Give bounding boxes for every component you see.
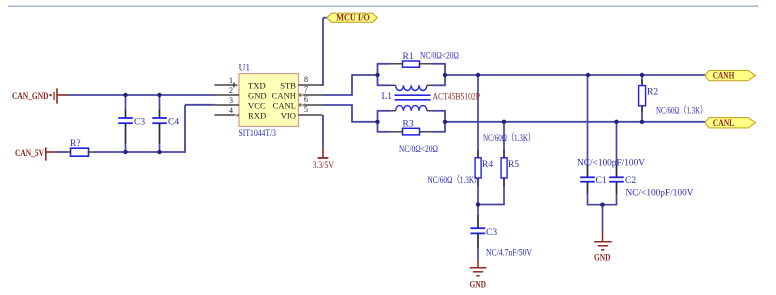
resistor R4: [475, 158, 481, 178]
net tag CANH: [705, 70, 756, 80]
junction R5 branch on CANL rail: [502, 120, 506, 124]
svg-text:VIO: VIO: [281, 110, 296, 120]
wire C3 upper lead: [125, 95, 127, 118]
junction node R4-R5-C3 midpoint: [476, 202, 480, 206]
port CAN_GND: [50, 94, 52, 96]
svg-text:C1: C1: [596, 176, 607, 186]
capacitor C4 (left): [152, 117, 167, 119]
wire C4 lower lead: [159, 123, 161, 152]
port CAN_5V: [45, 147, 47, 160]
svg-text:NC/60Ω（1.3K）: NC/60Ω（1.3K）: [656, 105, 707, 117]
junction C4 bottom on CAN_5V net: [157, 150, 161, 154]
ground GND2: [602, 232, 604, 242]
wire VCC horizontal to pin 3: [185, 104, 215, 106]
svg-text:R1: R1: [403, 52, 414, 62]
wire R4-R5 join: [478, 204, 504, 206]
wire from R3 right: [432, 131, 446, 133]
wire bottom loop left vertical: [377, 111, 379, 132]
wire STB riser to MCU I/O: [322, 18, 324, 86]
svg-text:R3: R3: [403, 120, 414, 130]
pin 1 TXD: [215, 84, 240, 86]
wire from L1 top winding right: [433, 84, 446, 86]
svg-text:U1: U1: [239, 64, 251, 74]
wire to L1 top winding left: [377, 84, 390, 86]
wire C1-C2 join: [588, 204, 617, 206]
svg-text:4: 4: [229, 106, 233, 115]
wire R2 bottom lead to CANL rail: [641, 106, 643, 122]
svg-text:5: 5: [304, 105, 308, 114]
wire C2 branch from CANL rail: [616, 122, 618, 177]
junction CANH loop right onto rail: [443, 73, 447, 77]
wire C1 bottom to node: [587, 182, 589, 205]
wire CANL pin horizontal: [323, 104, 353, 106]
wire CANH riser up: [351, 74, 353, 96]
svg-text:8: 8: [304, 75, 308, 84]
pin 6 CANL: [299, 104, 323, 106]
capacitor C1: [580, 176, 595, 178]
wire GND2 stem: [602, 205, 604, 232]
pin direction mark pin4: [235, 114, 239, 118]
inductor L1 bottom winding: [390, 110, 396, 112]
junction C4 top on CAN_GND net: [157, 93, 161, 97]
junction C2 branch on CANL rail: [614, 120, 618, 124]
wire C1 branch from CANH rail: [587, 75, 589, 177]
svg-text:NC/<100pF/100V: NC/<100pF/100V: [626, 189, 694, 199]
svg-text:NC/4.7nF/50V: NC/4.7nF/50V: [486, 249, 532, 259]
svg-text:ACT45B5102P: ACT45B5102P: [433, 93, 481, 103]
wire STB stub join: [322, 84, 325, 86]
resistor R3: [403, 128, 420, 135]
wire C4 upper lead: [159, 95, 161, 118]
svg-text:SIT1044T/3: SIT1044T/3: [239, 129, 277, 139]
svg-text:CANH: CANH: [713, 72, 735, 82]
ground GND1: [477, 259, 479, 267]
svg-text:C2: C2: [625, 176, 636, 186]
wire R5 branch from CANL rail: [503, 122, 505, 158]
wire C2 bottom to node: [616, 182, 618, 205]
svg-text:CAN_5V: CAN_5V: [15, 149, 44, 159]
svg-text:STB: STB: [280, 80, 296, 90]
junction R4 branch on CANH rail: [476, 73, 480, 77]
wire R2 top lead from CANH rail: [641, 75, 643, 86]
wire CAN_5V to R?: [56, 151, 67, 153]
wire CANH into loop: [352, 74, 378, 76]
svg-text:NC/0Ω<20Ω: NC/0Ω<20Ω: [399, 145, 438, 155]
junction C1 branch on CANH rail: [586, 73, 590, 77]
svg-text:R4: R4: [482, 160, 493, 170]
svg-text:NC/60Ω（1.3K）: NC/60Ω（1.3K）: [483, 132, 535, 144]
svg-text:NC/60Ω（1.3K）: NC/60Ω（1.3K）: [428, 174, 482, 186]
wire R4 branch from CANH rail: [477, 75, 479, 158]
IC U1 body: [239, 74, 299, 127]
wire C3 lower lead: [125, 123, 127, 152]
inductor L1 common-mode choke top winding: [390, 84, 396, 86]
wire VCC riser vertical: [184, 105, 186, 153]
junction CANL loop right onto rail: [443, 120, 447, 124]
sheet border: [8, 5, 758, 7]
resistor R1: [403, 61, 420, 67]
wire to R1 left: [377, 63, 391, 65]
wire to L1 bottom winding left: [377, 110, 390, 112]
svg-text:GND: GND: [594, 253, 611, 263]
wire CAN_GND rail: [68, 94, 215, 96]
pin 4 RXD: [215, 114, 240, 116]
junction CANH into R1/L1 loop left: [375, 73, 379, 77]
resistor R5: [501, 158, 507, 178]
wire from L1 bottom winding right: [433, 110, 446, 112]
wire from R1 right: [432, 63, 446, 65]
svg-text:R2: R2: [647, 88, 658, 98]
svg-text:6: 6: [304, 95, 308, 104]
svg-text:R5: R5: [508, 160, 519, 170]
junction C3 top on CAN_GND net: [123, 93, 127, 97]
junction CANL into R3/L1 loop left: [375, 120, 379, 124]
svg-text:CANL: CANL: [713, 119, 735, 129]
pin direction mark pin7: [298, 93, 302, 97]
svg-text:L1: L1: [382, 92, 393, 102]
pin direction mark pin6: [298, 103, 302, 107]
net tag CANL: [705, 118, 756, 128]
svg-text:VCC: VCC: [248, 100, 266, 110]
svg-text:1: 1: [229, 76, 233, 85]
svg-text:NC/<100pF/100V: NC/<100pF/100V: [577, 159, 645, 169]
wire to R3 left: [377, 131, 391, 133]
pin 5 VIO: [299, 114, 323, 116]
wire node to C3 termination top: [477, 205, 479, 228]
pin 7 CANH: [299, 94, 323, 96]
wire R4 bottom to node: [477, 178, 479, 205]
wire R5 bottom to node: [503, 178, 505, 205]
wire CANL into loop: [352, 121, 378, 123]
svg-text:7: 7: [304, 85, 308, 94]
junction R2 top on CANH rail: [640, 73, 644, 77]
capacitor C3 (termination): [470, 227, 485, 229]
wire CANL bus rail: [445, 121, 706, 123]
wire C3 termination bottom to GND: [477, 234, 479, 260]
svg-text:GND: GND: [470, 280, 487, 290]
net tag MCU I/O: [327, 13, 377, 22]
pin 8 STB: [299, 84, 323, 86]
svg-text:MCU I/O: MCU I/O: [336, 13, 370, 23]
wire into MCU I/O tag: [323, 17, 328, 19]
capacitor C2: [609, 176, 624, 178]
pin direction mark pin1 edge tick: [233, 83, 235, 88]
svg-text:R?: R?: [70, 139, 81, 149]
wire VIO down: [322, 115, 324, 148]
svg-text:3: 3: [229, 96, 233, 105]
svg-text:NC/0Ω<20Ω: NC/0Ω<20Ω: [420, 52, 459, 62]
wire top loop left vertical: [377, 64, 379, 86]
junction R2 bottom on CANL rail: [640, 120, 644, 124]
pin 2 GND: [215, 94, 240, 96]
inductor L1 core: [395, 94, 431, 96]
wire bottom loop right vertical: [444, 111, 446, 132]
svg-text:2: 2: [229, 86, 233, 95]
svg-text:GND: GND: [248, 90, 267, 100]
resistor R2: [639, 86, 646, 106]
wire top loop right vertical: [444, 64, 446, 86]
svg-text:C3: C3: [134, 118, 145, 128]
svg-text:CANH: CANH: [272, 90, 296, 100]
power 3.3/5V: [322, 148, 324, 158]
wire CANH bus rail: [445, 74, 706, 76]
wire CANL dropper down: [351, 104, 353, 122]
svg-text:3.3/5V: 3.3/5V: [313, 161, 335, 171]
wire CANH pin horizontal: [323, 94, 353, 96]
svg-text:CAN_GND: CAN_GND: [12, 92, 49, 102]
svg-text:C3: C3: [486, 228, 497, 238]
pin 3 VCC: [215, 104, 240, 106]
svg-text:TXD: TXD: [248, 80, 266, 90]
wire R? to VCC corner: [94, 151, 185, 153]
capacitor C3 (left): [118, 117, 133, 119]
junction node C1-C2-GND midpoint: [600, 203, 604, 207]
svg-text:C4: C4: [168, 118, 179, 128]
junction C3 bottom on CAN_5V net: [123, 150, 127, 154]
resistor R?: [71, 148, 89, 156]
svg-text:RXD: RXD: [248, 110, 266, 120]
svg-text:CANL: CANL: [273, 100, 296, 110]
